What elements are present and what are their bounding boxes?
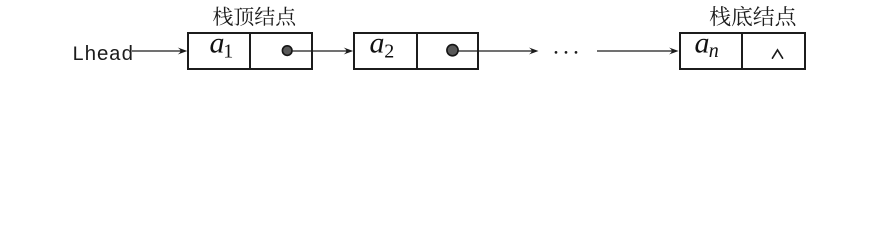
label 栈底结点 <box>710 6 796 26</box>
wire arrow node 1 to node 2 <box>292 48 353 55</box>
node 1 box (栈顶结点) <box>188 33 312 69</box>
svg-text:Lhead: Lhead <box>72 44 134 67</box>
svg-text:a: a <box>695 27 710 60</box>
svg-text:a: a <box>210 27 225 60</box>
ellipsis dots <box>555 51 578 54</box>
wire arrow Lhead to node 1 <box>132 48 187 55</box>
label 栈顶结点 <box>213 7 295 26</box>
node 1 pointer dot <box>282 46 292 56</box>
node 1 data a1 <box>210 27 234 63</box>
wire arrow ellipsis to node n <box>597 48 679 55</box>
svg-text:2: 2 <box>384 40 394 62</box>
svg-text:1: 1 <box>223 40 233 62</box>
node 2 data a2 <box>370 27 395 63</box>
node n data an <box>695 27 719 63</box>
wire arrow node 2 to ellipsis <box>459 48 539 55</box>
node 2 box <box>354 33 478 69</box>
null mark ^ in node n <box>772 50 782 58</box>
svg-text:a: a <box>370 27 385 60</box>
node n box (栈底结点) <box>680 33 805 69</box>
svg-text:n: n <box>709 40 719 62</box>
node 2 pointer dot <box>447 45 458 56</box>
